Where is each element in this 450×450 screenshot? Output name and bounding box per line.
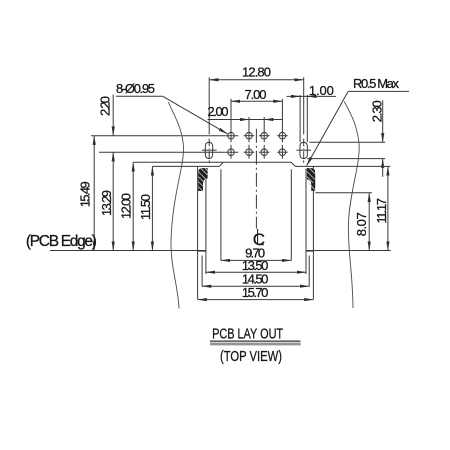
dim 1.00 line <box>287 95 336 97</box>
title gray bar <box>210 343 301 346</box>
dim 2.30 upper line (arrow down) <box>382 100 384 142</box>
dim 1.00 extension slot right tangent <box>306 95 308 142</box>
dim 11.17 vertical line <box>387 166 389 250</box>
dim 7.00 extension right <box>281 99 283 129</box>
body inner wall right <box>305 169 307 275</box>
hole B1 <box>228 145 235 159</box>
dim 14.50 horizontal line <box>202 285 309 287</box>
slot hole left <box>202 142 217 158</box>
hole A4 <box>277 128 288 142</box>
svg-text:12.00: 12.00 <box>119 193 134 219</box>
PCB edge line right segment <box>306 250 391 252</box>
svg-text:11.50: 11.50 <box>138 194 153 220</box>
dim 2.20 vertical line (outside arrow from above) <box>112 95 114 136</box>
wire row line bottom (hole row 2 centerline extended left) <box>99 151 238 153</box>
centerline symbol CL <box>253 229 265 249</box>
dim 9.70 horizontal line <box>221 259 291 261</box>
dim 12.80 extension / slot right centerline (dash-dot) <box>303 77 305 163</box>
svg-text:12.80: 12.80 <box>242 64 271 79</box>
slot hole right <box>296 142 311 158</box>
centerline vertical dash-dot <box>255 129 257 229</box>
dim 7.00 extension left <box>230 99 232 129</box>
body outer wall left <box>197 166 199 299</box>
dim 8.07 vertical line <box>368 193 370 251</box>
dim 1.00 extension slot left tangent <box>299 95 301 142</box>
gasket right (hatched) <box>307 168 315 191</box>
svg-text:PCB LAY OUT: PCB LAY OUT <box>212 327 283 343</box>
dim 12.80 extension / slot left centerline (dash-dot) <box>208 77 210 163</box>
svg-text:(TOP VIEW): (TOP VIEW) <box>220 349 282 365</box>
body wall bottom U left <box>198 250 206 252</box>
dim 15.70 horizontal line <box>198 299 314 301</box>
dim 15.49 vertical line <box>93 136 95 251</box>
svg-text:2.30: 2.30 <box>369 100 384 122</box>
hole B4 <box>277 145 288 159</box>
dim 12.80 horizontal line <box>209 79 304 81</box>
leader R0.5 Max tail <box>348 90 409 92</box>
svg-text:15.70: 15.70 <box>242 285 269 300</box>
slot right bottom tangent extension <box>307 158 385 160</box>
hole B3 <box>259 145 270 159</box>
dim 2.00 left arrow <box>240 119 249 121</box>
hole B2 <box>244 145 255 159</box>
svg-text:8-Ø0.95: 8-Ø0.95 <box>116 81 155 96</box>
body lip edge right + 11.17 extension <box>295 165 390 167</box>
gasket left (hatched) <box>198 168 207 191</box>
dim 2.00 right arrow <box>264 119 273 121</box>
leader R0.5 Max diagonal with arrow <box>307 91 349 165</box>
body chamfer left <box>219 162 223 166</box>
dim 2.30 lower line (arrow up) <box>382 159 384 177</box>
svg-text:(PCB Edge): (PCB Edge) <box>26 233 97 250</box>
svg-text:2.00: 2.00 <box>208 104 229 119</box>
title underline <box>210 340 301 342</box>
body inner wall left <box>205 169 207 275</box>
body chamfer right <box>291 162 295 166</box>
svg-text:7.00: 7.00 <box>245 87 267 102</box>
svg-text:11.17: 11.17 <box>374 198 389 224</box>
svg-text:8.07: 8.07 <box>354 212 369 236</box>
body wall bottom U right <box>306 250 313 252</box>
dim 13.50 horizontal line <box>206 271 306 273</box>
svg-text:2.20: 2.20 <box>98 96 113 116</box>
dim 14.50 extension left <box>201 256 203 287</box>
svg-text:13.29: 13.29 <box>99 190 114 216</box>
dim 1.00 left arrow <box>291 95 300 97</box>
dim 1.00 right arrow <box>307 95 316 97</box>
break line right (S-curve) <box>344 102 359 309</box>
body raised top edge + 12.00 extension <box>133 161 291 163</box>
body lip edge left + 11.50 extension <box>152 165 219 167</box>
dim 11.50 vertical line <box>151 166 153 250</box>
svg-text:15.49: 15.49 <box>77 181 92 207</box>
svg-text:R0.5 Max: R0.5 Max <box>353 76 400 91</box>
body outer wall right <box>312 166 314 299</box>
leader 8-Ø0.95 diagonal with arrow <box>163 96 228 134</box>
body opening edge left + 9.70 extension <box>220 169 222 260</box>
wire row line top (hole row 1 centerline extended left) <box>91 135 238 137</box>
hole A3 <box>259 117 270 142</box>
leader 8-Ø0.95 underline <box>116 95 163 97</box>
slot right top tangent extension <box>309 141 385 143</box>
PCB edge line left segment <box>50 250 206 252</box>
hole A1 <box>228 128 235 142</box>
body opening edge right + 9.70 extension <box>290 169 292 260</box>
dim 7.00 horizontal line <box>231 100 282 102</box>
hole A2 <box>244 117 255 142</box>
dim 13.29 vertical line <box>112 152 114 250</box>
dim 12.00 vertical line <box>132 162 134 250</box>
dim 2.00 line <box>208 119 283 121</box>
break line left (S-curve) <box>168 102 183 309</box>
dim 8.07 top extension (gasket bottom) <box>315 192 372 194</box>
svg-text:1.00: 1.00 <box>309 83 334 98</box>
dim 14.50 extension right <box>308 256 310 287</box>
